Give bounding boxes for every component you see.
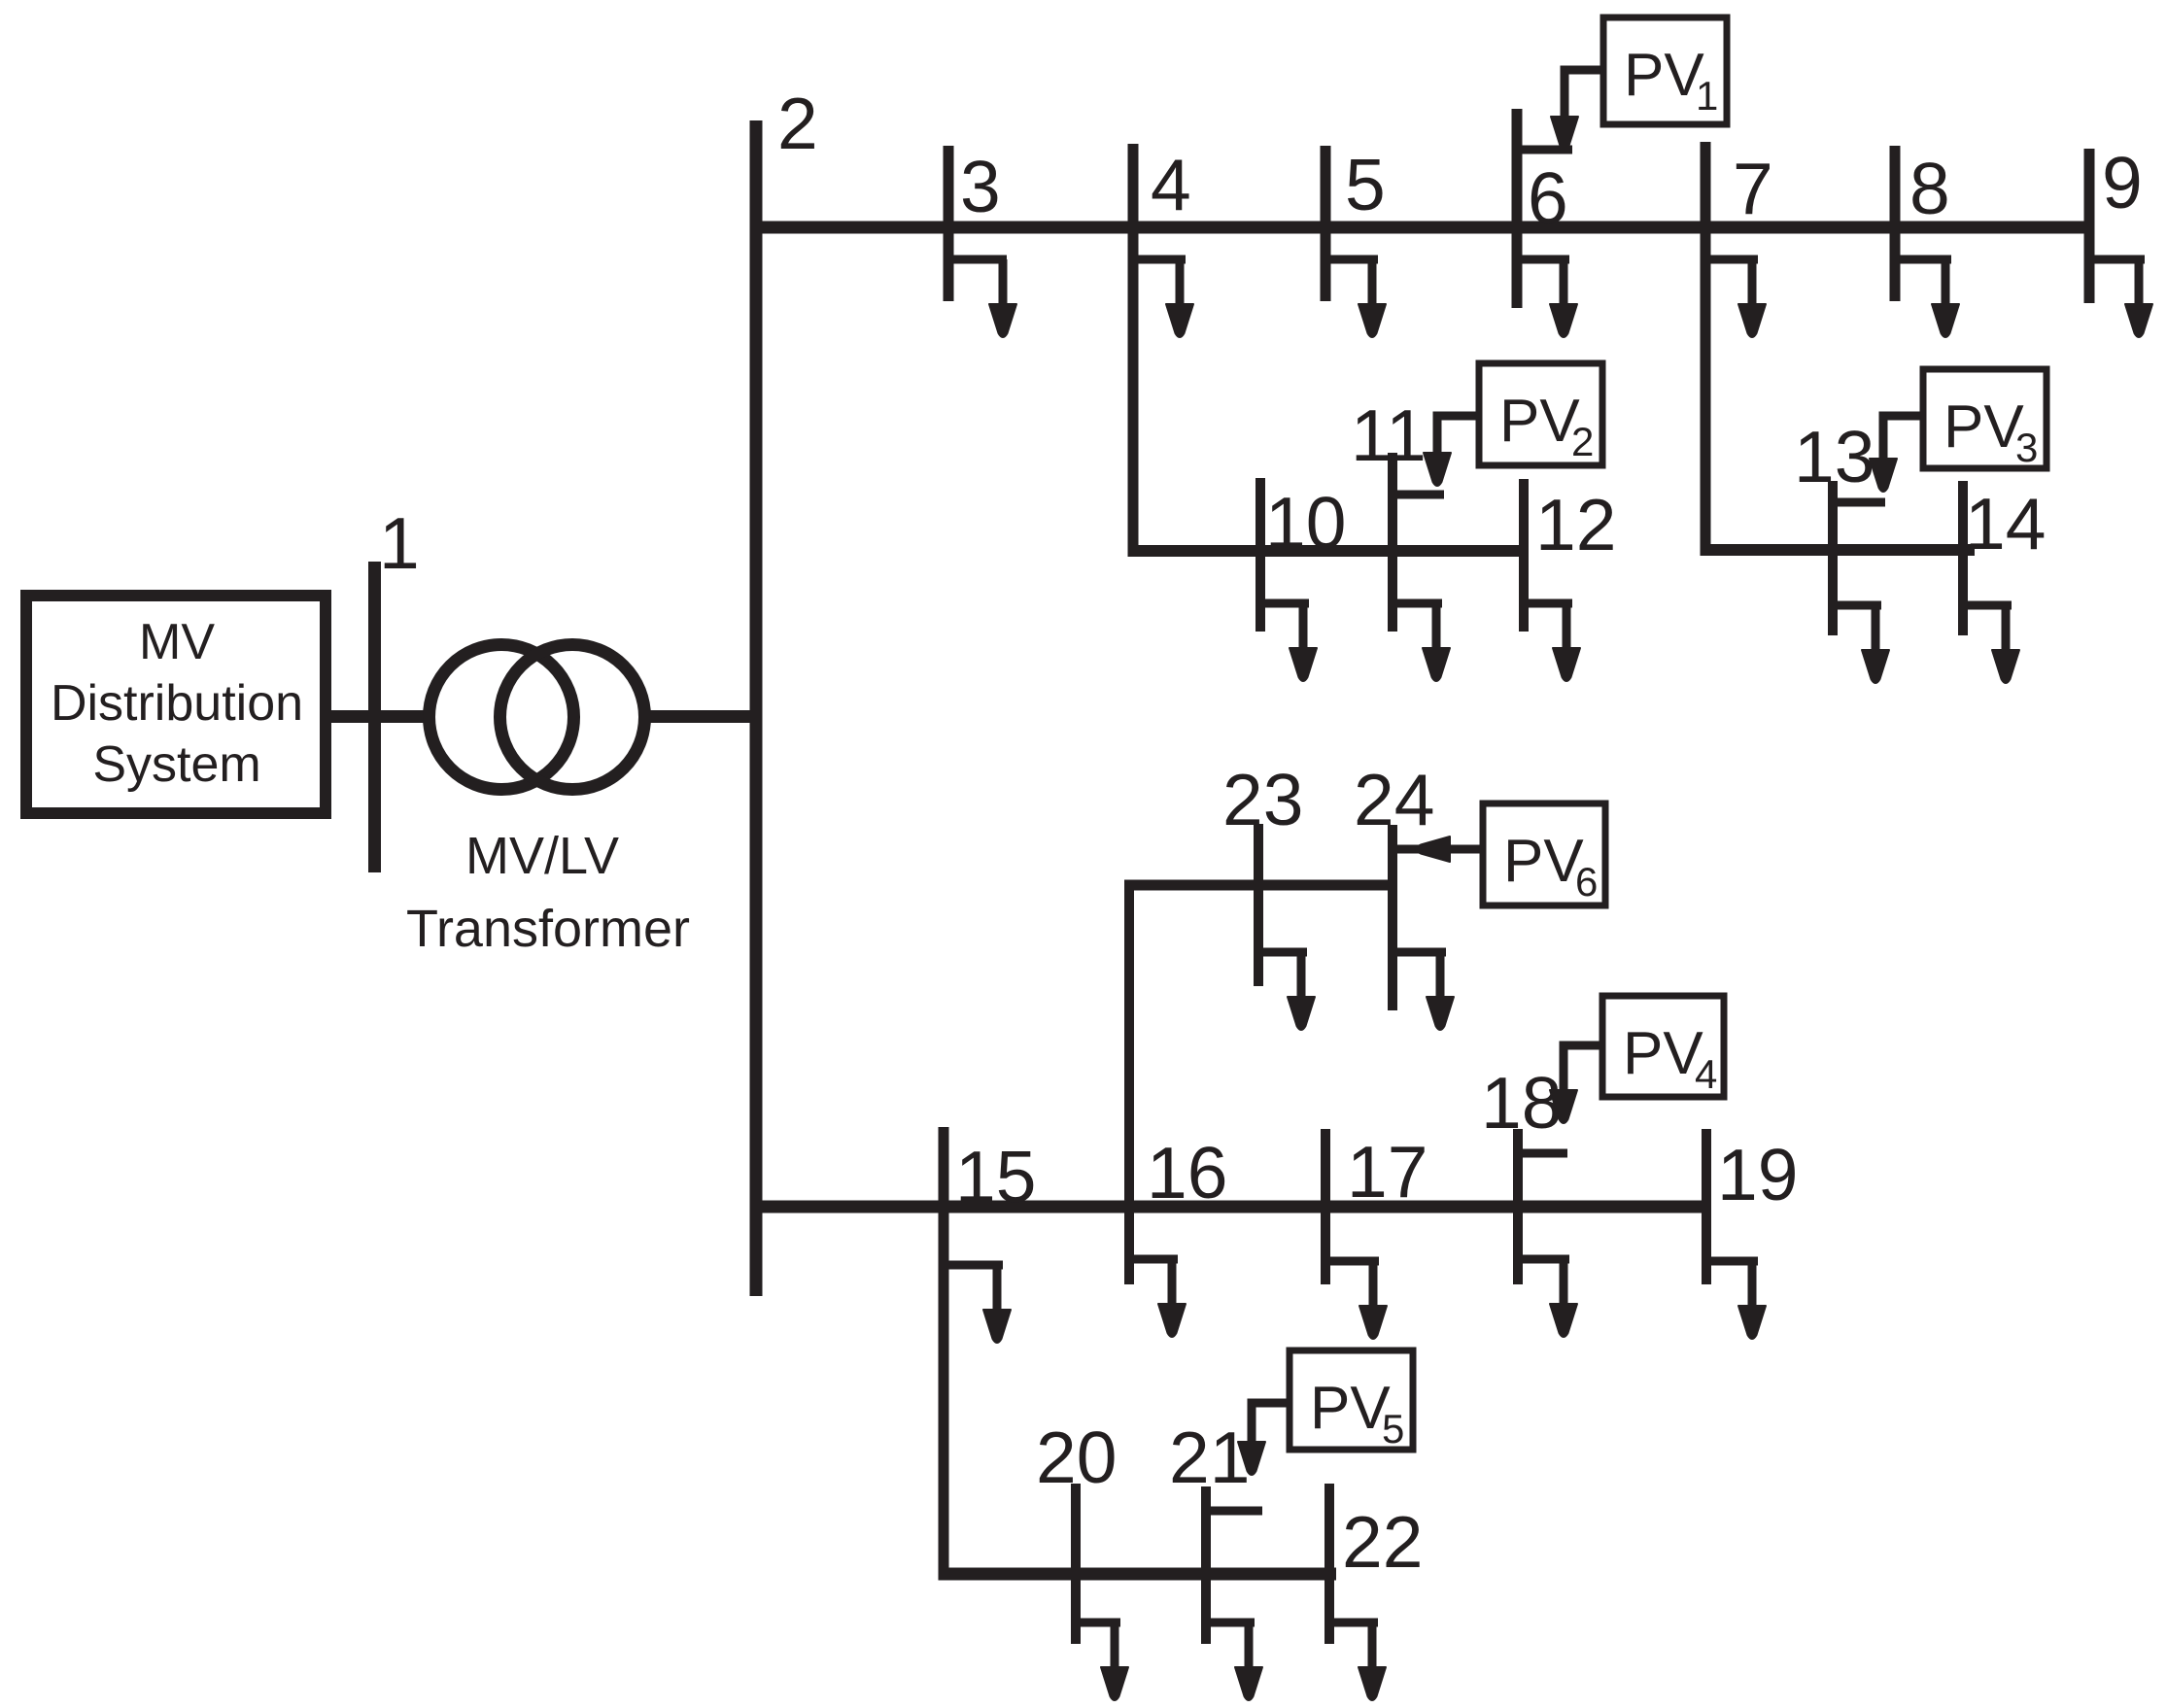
label bus 4 (1151, 144, 1191, 225)
load arrow at bus 17 (1325, 1261, 1387, 1339)
bus 15 (bar and drop to sub-feeder 20-22) (939, 1127, 949, 1580)
svg-text:10: 10 (1265, 482, 1346, 564)
bus 18 (1513, 1129, 1523, 1284)
top feeder line (bus 2 to bus 9) (750, 222, 2095, 234)
bus 16 (bar and riser to sub-feeder 23-24) (1124, 880, 1134, 1284)
label bus 23 (1222, 759, 1303, 840)
label bus 17 (1347, 1131, 1427, 1213)
MV/LV transformer (430, 645, 645, 790)
label bus 14 (1965, 483, 2046, 564)
svg-text:3: 3 (960, 146, 1001, 227)
load arrow at bus 10 (1260, 603, 1317, 681)
label bus 15 (955, 1136, 1036, 1217)
svg-text:20: 20 (1036, 1417, 1117, 1498)
wire PV1 to bus 6 (1551, 66, 1603, 151)
PV unit PV4 box (1602, 996, 1724, 1097)
label bus 6 (1528, 157, 1568, 239)
svg-text:PV: PV (1499, 388, 1580, 455)
PV unit PV1 box (1603, 17, 1727, 124)
svg-text:5: 5 (1345, 144, 1386, 225)
svg-text:PV: PV (1623, 1020, 1703, 1087)
svg-text:24: 24 (1354, 759, 1434, 840)
bus 14 (1958, 481, 1968, 635)
bus 19 (1702, 1129, 1711, 1284)
svg-text:5: 5 (1382, 1406, 1404, 1452)
PV unit PV3 box (1923, 369, 2047, 470)
svg-text:15: 15 (955, 1136, 1036, 1217)
svg-text:4: 4 (1695, 1051, 1717, 1097)
label bus 11 (1351, 394, 1427, 476)
svg-text:6: 6 (1575, 859, 1598, 905)
label bus 5 (1345, 144, 1386, 225)
PV unit PV6 box (1483, 803, 1605, 905)
sub-feeder line (buses 23-24) (1124, 880, 1397, 891)
PV1 tap on bus 6 (1517, 146, 1572, 154)
PV4 landing tap on bus 18 (1518, 1149, 1567, 1158)
svg-text:11: 11 (1351, 394, 1427, 476)
load arrow at bus 7 (1705, 259, 1766, 337)
label bus 2 (777, 83, 818, 164)
label bus 1 (379, 502, 420, 584)
load arrow at bus 19 (1706, 1261, 1766, 1339)
sub-feeder line (buses 10-12) (1128, 545, 1530, 557)
sub-feeder line (buses 13-14) (1701, 544, 1976, 556)
load arrow at bus 23 (1258, 952, 1315, 1030)
svg-text:12: 12 (1535, 484, 1616, 565)
svg-text:17: 17 (1347, 1131, 1427, 1213)
load arrow at bus 13 (1833, 605, 1889, 683)
svg-text:3: 3 (2015, 425, 2038, 470)
load arrow at bus 4 (1133, 259, 1193, 337)
svg-text:7: 7 (1733, 148, 1773, 229)
svg-text:6: 6 (1528, 157, 1568, 239)
svg-text:23: 23 (1222, 759, 1303, 840)
PV6 landing tap on bus 24 (1393, 845, 1419, 854)
label MV/LV Transformer (406, 827, 690, 958)
bus 21 (1201, 1486, 1211, 1644)
svg-text:2: 2 (777, 83, 818, 164)
MV Distribution System box (26, 596, 326, 813)
wire PV2 to bus 11 (1424, 412, 1479, 487)
svg-text:Transformer: Transformer (406, 900, 690, 958)
wire from MV box to transformer (331, 710, 430, 723)
bus 5 (1321, 146, 1331, 301)
svg-text:MV/LV: MV/LV (465, 827, 619, 885)
wire PV6 to bus 24 (1416, 837, 1483, 862)
label bus 9 (2102, 142, 2143, 223)
svg-text:1: 1 (379, 502, 420, 584)
label bus 19 (1717, 1134, 1798, 1215)
label bus 3 (960, 146, 1001, 227)
svg-text:Distribution: Distribution (51, 675, 303, 732)
bus 2 (750, 120, 763, 1296)
svg-text:System: System (92, 736, 260, 793)
wire PV3 to bus 13 (1870, 412, 1923, 493)
svg-text:4: 4 (1151, 144, 1191, 225)
load arrow at bus 5 (1325, 259, 1386, 337)
load arrow at bus 18 (1518, 1259, 1577, 1337)
svg-text:13: 13 (1794, 416, 1875, 497)
label bus 18 (1481, 1062, 1562, 1144)
bus 24 (1388, 825, 1397, 1010)
bus 6 (1512, 109, 1523, 308)
load arrow at bus 14 (1963, 605, 2019, 683)
svg-text:8: 8 (1909, 148, 1950, 229)
label bus 13 (1794, 416, 1875, 497)
bus 4 (bar and drop to sub-feeder) (1128, 144, 1139, 557)
svg-text:PV: PV (1624, 42, 1704, 109)
PV3 landing tap on bus 13 (1833, 498, 1885, 507)
label bus 21 (1169, 1417, 1250, 1498)
bus 20 (1071, 1484, 1081, 1644)
bus 12 (1519, 479, 1529, 632)
load arrow at bus 21 (1206, 1623, 1262, 1700)
PV unit PV2 box (1479, 363, 1602, 465)
load arrow at bus 22 (1329, 1623, 1386, 1700)
svg-text:16: 16 (1147, 1132, 1227, 1213)
bus 8 (1890, 146, 1901, 301)
svg-text:1: 1 (1696, 73, 1718, 119)
svg-text:PV: PV (1943, 393, 2024, 461)
svg-text:MV: MV (139, 614, 215, 670)
svg-text:14: 14 (1965, 483, 2046, 564)
bottom feeder line (bus 2 to bus 19) (750, 1201, 1712, 1213)
bus 13 (1828, 481, 1838, 635)
svg-text:PV: PV (1310, 1375, 1391, 1442)
bus 11 (1388, 453, 1397, 632)
PV2 landing tap on bus 11 (1393, 491, 1444, 499)
load arrow at bus 6 (1517, 259, 1577, 337)
label bus 16 (1147, 1132, 1227, 1213)
load arrow at bus 16 (1129, 1259, 1186, 1337)
bus 9 (2084, 149, 2095, 303)
bus 22 (1324, 1484, 1334, 1644)
load arrow at bus 9 (2089, 259, 2152, 337)
label bus 7 (1733, 148, 1773, 229)
PV5 landing tap on bus 21 (1206, 1507, 1262, 1516)
load arrow at bus 20 (1076, 1623, 1128, 1700)
PV unit PV5 box (1290, 1350, 1413, 1452)
bus 7 (bar and drop to sub-feeder) (1701, 142, 1711, 556)
wire PV4 to bus 18 (1550, 1042, 1602, 1124)
wire from transformer to bus 2 (644, 710, 756, 723)
bus 1 (368, 562, 381, 872)
label bus 10 (1265, 482, 1346, 564)
label bus 24 (1354, 759, 1434, 840)
svg-text:9: 9 (2102, 142, 2143, 223)
label bus 22 (1342, 1501, 1423, 1583)
wire PV5 to bus 21 (1238, 1399, 1290, 1476)
svg-text:2: 2 (1571, 419, 1594, 464)
svg-text:18: 18 (1481, 1062, 1562, 1144)
svg-text:19: 19 (1717, 1134, 1798, 1215)
bus 23 (1254, 824, 1263, 986)
label bus 12 (1535, 484, 1616, 565)
bus 10 (1255, 478, 1265, 632)
sub-feeder line (buses 20-22) (939, 1568, 1337, 1581)
label bus 20 (1036, 1417, 1117, 1498)
load arrow at bus 3 (948, 259, 1016, 337)
load arrow at bus 11 (1393, 603, 1450, 681)
label bus 8 (1909, 148, 1950, 229)
svg-text:21: 21 (1169, 1417, 1250, 1498)
bus 17 (1321, 1129, 1330, 1284)
load arrow at bus 24 (1393, 952, 1454, 1030)
load arrow at bus 12 (1524, 603, 1580, 681)
svg-text:PV: PV (1503, 828, 1584, 895)
load arrow at bus 8 (1895, 259, 1959, 337)
bus 3 (944, 146, 954, 301)
svg-text:22: 22 (1342, 1501, 1423, 1583)
load arrow at bus 15 (944, 1265, 1011, 1343)
